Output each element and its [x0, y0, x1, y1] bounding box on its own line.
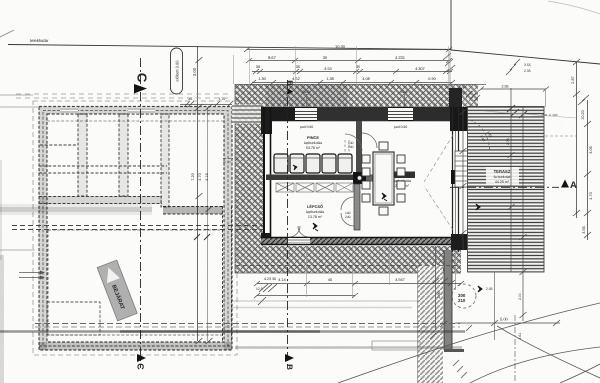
window W1	[295, 108, 317, 129]
dimension below terrace	[455, 320, 560, 326]
dimension vertical in terrace gap	[460, 108, 467, 250]
interior wall vertical V1	[356, 121, 362, 174]
house bottom wall	[261, 237, 460, 245]
left building: bottom wall band	[39, 342, 232, 350]
house top wall center pier	[317, 107, 388, 121]
left building: small divider upper left	[39, 145, 167, 173]
dimension line vertical left	[191, 46, 213, 344]
house top right corner block	[449, 88, 462, 108]
left building: lower room inner face	[48, 230, 224, 335]
node cross junction	[353, 172, 376, 184]
lamp symbol terrace	[476, 204, 480, 210]
steps to terrace	[455, 151, 470, 187]
door dashes top of stair room	[345, 140, 349, 153]
node B section line	[287, 80, 289, 368]
left building: partition vertical b	[119, 114, 128, 196]
room label LEPCSO	[306, 204, 325, 219]
node C marker top	[134, 73, 150, 94]
terrace dashed arc	[470, 120, 490, 152]
door arcs bottom entrance	[289, 226, 309, 237]
door D1 arcs	[345, 133, 377, 151]
terrace deck	[468, 107, 545, 273]
dimension cluster stairs top right	[506, 59, 520, 75]
wire: wall connector lines left building to house	[232, 105, 263, 124]
dimension below house row 1	[254, 281, 464, 286]
dimension cluster at boundary junction	[443, 53, 455, 72]
window W2	[388, 108, 413, 129]
wire: dashed vertical below terrace	[514, 315, 516, 382]
room label PINCE	[304, 135, 323, 150]
door D2 double arcs	[341, 197, 354, 226]
wire: property boundary vertical right	[450, 0, 452, 50]
wire: vertical dim at hatch left edge	[233, 55, 235, 84]
left building: outer walls dashed	[39, 107, 232, 351]
dimension verticals through terrace	[507, 88, 527, 321]
dimension chain top row 3	[252, 69, 453, 74]
scan artifact smear left	[0, 204, 152, 215]
contour tick marks	[430, 325, 472, 339]
hatch region top right corner	[448, 84, 478, 107]
tree circle	[452, 284, 476, 308]
dimension below house row 2	[254, 293, 358, 298]
furniture sofa row	[274, 154, 352, 173]
wire: eaves dashed line top faint	[16, 93, 232, 95]
dimension cluster below house left	[258, 284, 277, 305]
dimension chain top row 1	[244, 47, 452, 52]
hatch region top band over house	[263, 84, 452, 107]
dimension chain top row 2	[246, 58, 452, 63]
wire: leader line deck to chain	[484, 111, 576, 118]
terrace label	[486, 167, 519, 185]
ground hatch marks	[453, 360, 467, 378]
lamp symbol below terrace	[478, 286, 482, 292]
left building: small dashed room bottom left	[47, 302, 100, 335]
left building: inner face dashed line	[47, 120, 224, 122]
left building: eaves dashed outline	[33, 101, 237, 355]
node C section line	[140, 58, 142, 368]
hatch region vertical band below house	[418, 265, 444, 383]
wire: long dashed foundation lines	[12, 226, 268, 230]
wire: faint arc top right	[548, 1, 600, 14]
lamp symbol lepcso	[313, 223, 318, 231]
wire: line boundary to house corner	[449, 50, 451, 107]
interior wall vertical V2 jamb	[354, 184, 360, 230]
wire: long wall line lower	[0, 324, 465, 348]
dimension top right row	[466, 87, 549, 102]
house right wall glazing	[453, 107, 459, 252]
left building: partition vertical a	[78, 114, 87, 196]
wire: property line telekhatar	[8, 38, 451, 50]
left building: main divider wall	[39, 196, 162, 204]
node A marker	[561, 180, 577, 192]
house top wall right pier	[413, 107, 452, 121]
wire: dashed dim extension right	[545, 135, 576, 137]
room label dining	[389, 172, 415, 189]
house bottom wall door opening	[288, 238, 310, 244]
house top wall	[261, 107, 458, 121]
left building: partition vertical c	[161, 114, 169, 207]
leader arrows into left wall	[19, 273, 40, 278]
scan artifact faint lines left	[0, 95, 39, 250]
terrain contour curves	[338, 303, 600, 383]
door swing dashes dining	[424, 135, 453, 230]
wire: property boundary diagonal	[451, 50, 600, 64]
scan artifact left edge streak	[0, 255, 4, 383]
wire: axis dash line right of deck	[542, 114, 558, 116]
left building: top wall window gaps	[60, 108, 155, 114]
left building: right wall lower	[223, 206, 232, 342]
node B marker bottom	[285, 354, 294, 370]
wire: faint wall lines lower middle	[232, 301, 420, 308]
node C marker bottom	[136, 354, 147, 370]
left building: step divider wall right	[163, 159, 233, 215]
wire: dashed line through lower band	[236, 265, 460, 267]
house right wall bottom corner	[451, 234, 467, 250]
wire: extension verticals below house	[307, 245, 390, 297]
furniture chairs	[362, 142, 405, 215]
lamp symbol pince	[293, 165, 297, 170]
node A section line	[450, 186, 559, 188]
dimension chain right edge outer	[573, 59, 591, 240]
retaining wall band right of driveway	[444, 250, 464, 352]
furniture bench row with X braces	[276, 183, 353, 192]
house right wall mid pier	[451, 170, 464, 184]
wire: top-left tick	[0, 30, 14, 37]
wire: deck right edge extension	[545, 89, 547, 107]
dimension window axis marks	[307, 94, 405, 108]
lamp symbol dining	[382, 193, 387, 201]
furniture dining table	[373, 152, 394, 205]
left building: wall fill tint	[39, 107, 232, 351]
wire: vline below deck left	[494, 272, 496, 340]
house left wall	[264, 107, 271, 245]
faint rect on bottom wall	[372, 341, 420, 350]
node elokert capsule	[171, 48, 183, 94]
dimension chain top row 4	[250, 80, 455, 85]
hatch band edge lines	[235, 84, 486, 273]
hatch region below house band	[235, 246, 461, 273]
hatch smudge artifact	[266, 84, 348, 106]
node B marker top	[286, 80, 295, 94]
wire: dim connector hairlines	[250, 46, 449, 88]
hatch region left vertical band	[235, 84, 263, 246]
dimension cluster above left building	[180, 101, 233, 107]
interior wall horizontal H1	[266, 175, 356, 181]
BEJARAT entrance arrow	[97, 260, 137, 321]
wire: right wall extension down	[455, 252, 457, 290]
house top wall corner left	[261, 107, 295, 121]
